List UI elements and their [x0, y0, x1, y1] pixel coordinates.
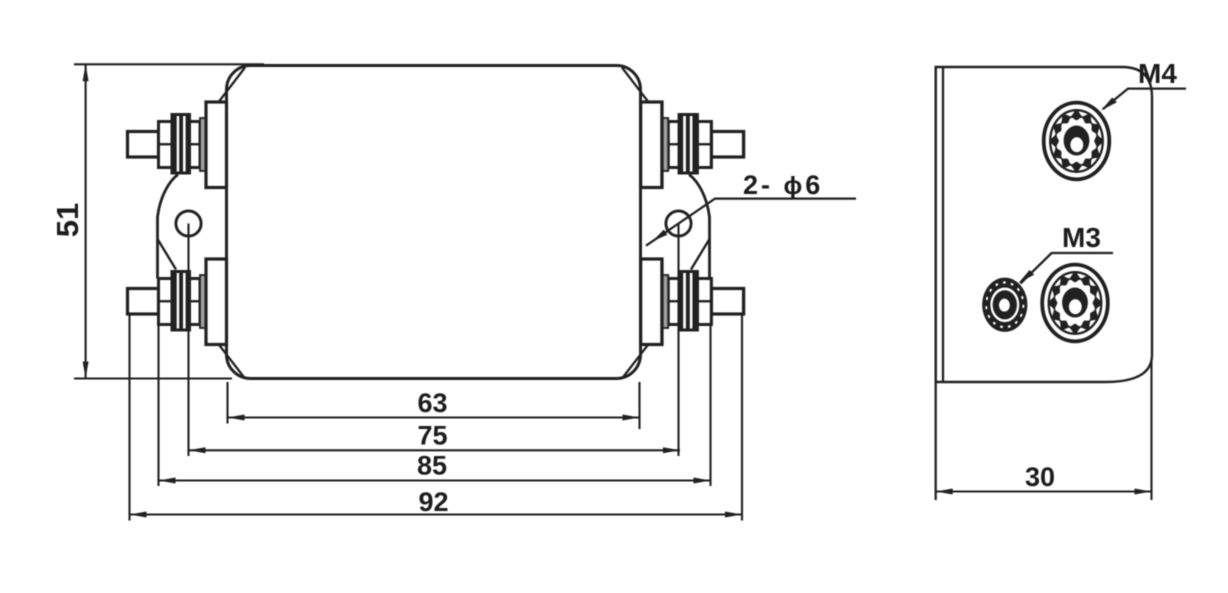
dim 85 line [159, 479, 711, 481]
bracket corner diagonal bottom-right [622, 345, 648, 379]
dim 92 extension left [128, 314, 130, 521]
terminal top-left [128, 102, 227, 188]
dim 30 line [936, 490, 1152, 492]
dim 30 extension right [1150, 358, 1152, 500]
bracket corner diagonal top-right [622, 68, 648, 102]
side view flange inner line [942, 67, 944, 382]
dim 92 arrows [130, 512, 147, 518]
terminal bottom-right [641, 259, 744, 345]
dim 85 extension left [157, 325, 159, 487]
left hole center line / 75 extension [187, 224, 189, 457]
dim 51 arrow bottom [83, 362, 89, 379]
dim 51 arrow top [83, 64, 89, 81]
dim 75 arrows [189, 447, 206, 453]
dim 30 extension left [935, 67, 937, 500]
M3 leader arrowhead [1019, 270, 1035, 283]
svg-text:30: 30 [1025, 462, 1055, 492]
dim 63 arrows [228, 415, 245, 421]
dim 63 extension left [226, 382, 228, 424]
M4 leader arrowhead [1101, 98, 1117, 111]
terminal top-right [641, 102, 744, 188]
M4 connector [1044, 103, 1110, 180]
right hole center line / 75 extension [677, 224, 679, 457]
right mounting hole [666, 211, 691, 236]
dim 92 extension right [741, 314, 743, 521]
svg-text:63: 63 [417, 388, 447, 418]
left mounting hole [176, 211, 201, 236]
svg-text:75: 75 [417, 420, 447, 450]
svg-text:M4: M4 [1138, 58, 1177, 89]
side view outline [936, 67, 1152, 382]
bracket corner diagonal bottom-left [219, 345, 245, 379]
left bracket crease [158, 239, 177, 270]
dim 85 arrows [159, 478, 176, 484]
M3 small connector [982, 278, 1027, 332]
M4 leader line [1103, 89, 1186, 109]
bracket corner diagonal top-left [219, 68, 245, 102]
dim 63 line [228, 416, 640, 418]
right mounting bracket edge [689, 175, 710, 279]
dim 85 extension right [709, 325, 711, 487]
bottom large connector [1042, 265, 1108, 342]
M3 leader line [1021, 253, 1114, 284]
dim 51 line [85, 64, 87, 378]
dim 51 top extension line [74, 63, 264, 65]
2-phi6 leader arrowhead [652, 230, 667, 242]
svg-text:85: 85 [417, 451, 447, 481]
dim 75 line [189, 449, 681, 451]
2-phi6 leader line [646, 199, 856, 246]
svg-text:92: 92 [418, 487, 448, 517]
left mounting bracket edge [158, 175, 179, 279]
terminal bottom-left [128, 259, 227, 345]
dim 30 arrows [936, 489, 953, 495]
svg-text:2- ϕ6: 2- ϕ6 [743, 170, 823, 200]
svg-text:51: 51 [50, 203, 85, 237]
dim 51 bottom extension line [74, 377, 232, 379]
filter body outline [227, 66, 641, 379]
svg-text:M3: M3 [1062, 222, 1101, 253]
dim 92 line [130, 513, 743, 515]
dim 63 extension right [638, 382, 640, 429]
right bracket crease [691, 239, 710, 270]
